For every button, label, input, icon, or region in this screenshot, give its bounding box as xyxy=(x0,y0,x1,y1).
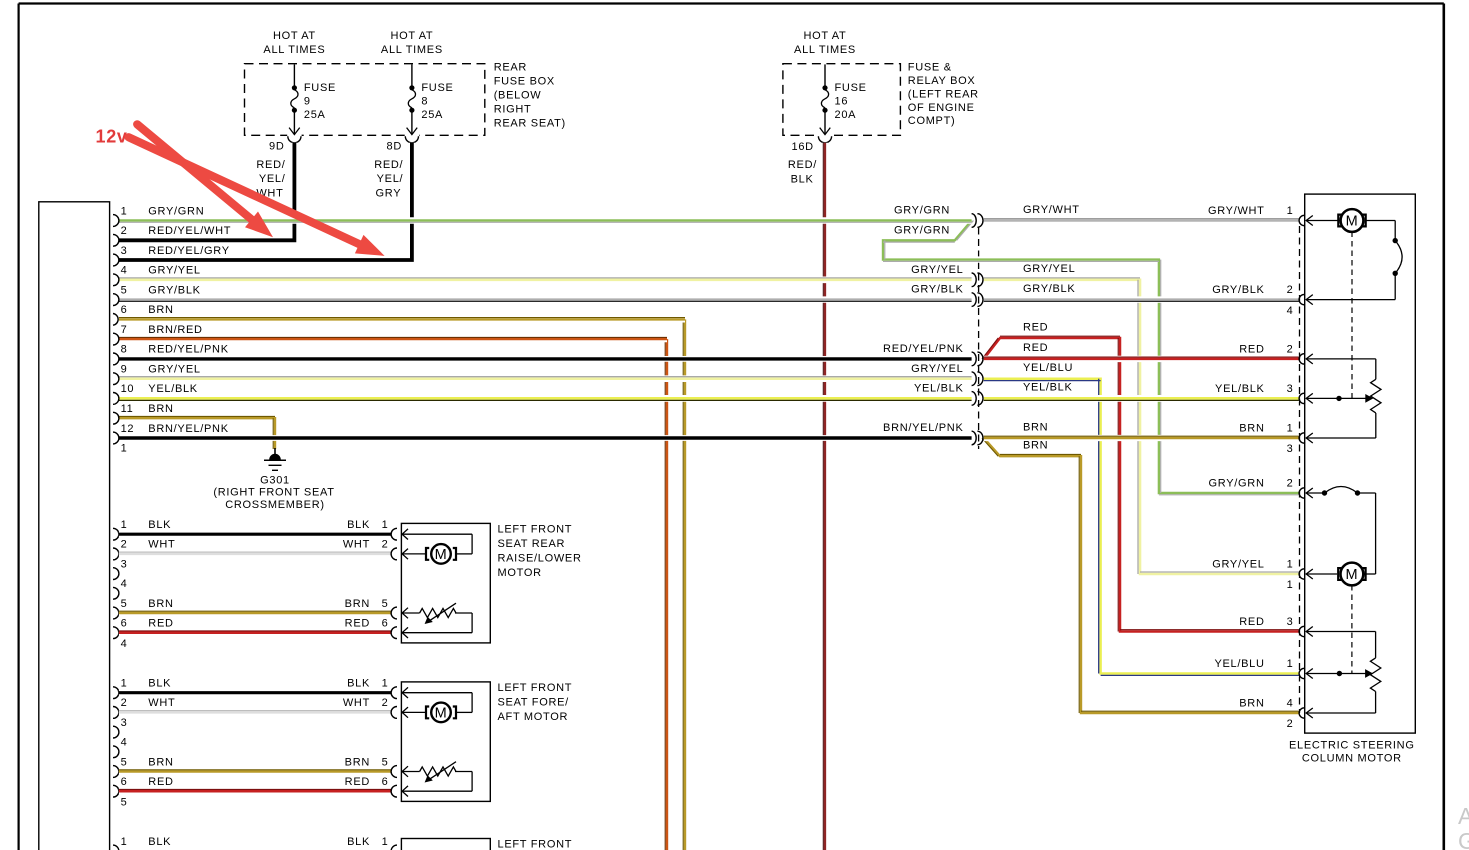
label YEL/BLK left xyxy=(914,383,964,395)
svg-text:3: 3 xyxy=(121,558,128,570)
annotation 12v xyxy=(96,127,128,147)
inline connector terminal pair row y=438 xyxy=(972,431,983,445)
fuse 8 (25A) symbol xyxy=(405,64,419,142)
svg-text:2: 2 xyxy=(1287,284,1294,296)
block pin 3 terminal (module side) xyxy=(113,568,119,580)
svg-text:LEFT FRONT: LEFT FRONT xyxy=(498,682,573,694)
motor box 3 enclosure (partial) xyxy=(401,839,490,850)
motor box pin 2 terminal xyxy=(391,548,397,560)
svg-text:MOTOR: MOTOR xyxy=(498,567,542,579)
block pin 5 terminal (module side) xyxy=(113,607,119,619)
steering pin label YEL/BLU xyxy=(1214,658,1264,670)
steering motor 2 limit switch loop xyxy=(1306,487,1375,575)
steering pin 2 arrow xyxy=(1306,354,1313,364)
svg-text:8D: 8D xyxy=(387,141,402,153)
svg-text:HOT AT: HOT AT xyxy=(390,30,433,42)
wire RED branch to steering pin 3 xyxy=(982,336,1299,631)
connector 9D label xyxy=(269,141,284,153)
svg-text:BLK: BLK xyxy=(347,519,370,531)
svg-text:RED: RED xyxy=(1239,616,1264,628)
label GRY/YEL right xyxy=(1023,263,1075,275)
module pin 9 number xyxy=(121,364,128,376)
svg-text:25A: 25A xyxy=(421,109,443,121)
wire RED/BLK vertical from fuse 16 xyxy=(823,143,825,850)
wire BRN vertical (from pin 6) xyxy=(683,319,685,850)
steering pin label BRN xyxy=(1239,698,1264,710)
svg-text:YEL/BLK: YEL/BLK xyxy=(148,383,198,395)
svg-text:3: 3 xyxy=(121,245,128,257)
svg-text:YEL/BLU: YEL/BLU xyxy=(1214,658,1264,670)
svg-text:9: 9 xyxy=(121,364,128,376)
block pin 3 number (module side) xyxy=(121,558,128,570)
steering pin below-number 2 xyxy=(1287,718,1294,730)
block pin 6 number (module side) xyxy=(121,618,128,630)
motor box pin 1 terminal xyxy=(391,687,397,699)
steering pin number 2 xyxy=(1287,478,1294,490)
block pin 5 number (module side) xyxy=(121,756,128,768)
svg-text:1: 1 xyxy=(1287,559,1294,571)
svg-text:2: 2 xyxy=(1287,478,1294,490)
svg-text:9: 9 xyxy=(304,95,311,107)
svg-text:1: 1 xyxy=(382,519,389,531)
block pin 2 number (module side) xyxy=(121,697,128,709)
module pin 2 wire name xyxy=(148,225,231,237)
svg-text:ALL TIMES: ALL TIMES xyxy=(794,44,856,56)
wire GRY/BLK to steering pin 2 xyxy=(984,300,1299,302)
svg-text:1: 1 xyxy=(121,443,128,455)
module pin 8 wire name xyxy=(148,344,228,356)
svg-text:1: 1 xyxy=(1287,423,1294,435)
svg-text:3: 3 xyxy=(1287,443,1294,455)
module pin 7 wire name xyxy=(148,324,202,336)
svg-text:GRY/YEL: GRY/YEL xyxy=(1023,263,1075,275)
steering pin 1 arrow xyxy=(1306,669,1313,679)
svg-text:4: 4 xyxy=(121,638,128,650)
steering pin 1 (BRN) terminal xyxy=(1299,433,1304,443)
svg-text:ALL TIMES: ALL TIMES xyxy=(263,44,325,56)
block pin 6 terminal (module side) xyxy=(113,785,119,797)
svg-text:25A: 25A xyxy=(304,109,326,121)
steering motor 1 limit switch loop xyxy=(1306,221,1402,300)
label GRY/GRN (loop) xyxy=(894,225,950,237)
svg-text:5: 5 xyxy=(121,756,128,768)
svg-text:RED/: RED/ xyxy=(788,159,817,171)
svg-text:4: 4 xyxy=(121,737,128,749)
block pin 6 wire name xyxy=(148,618,173,630)
svg-text:GRY/YEL: GRY/YEL xyxy=(148,265,200,277)
label BRN lower right xyxy=(1023,440,1048,452)
wire RED row 6 xyxy=(119,631,391,633)
svg-text:M: M xyxy=(435,547,448,563)
svg-text:GRY/YEL: GRY/YEL xyxy=(1212,559,1264,571)
wire RED/YEL/GRY pin 3 to fuse 8 xyxy=(119,143,412,260)
svg-text:(RIGHT FRONT SEAT: (RIGHT FRONT SEAT xyxy=(213,487,334,499)
svg-text:YEL/: YEL/ xyxy=(377,173,404,185)
module pin 12 terminal xyxy=(113,432,119,444)
svg-text:RED: RED xyxy=(148,618,173,630)
wire GRY/GRN loop to steering pin 2 xyxy=(883,221,1299,495)
svg-text:FUSE BOX: FUSE BOX xyxy=(494,76,555,88)
steering pin 2 (GRY/BLK) terminal xyxy=(1299,294,1304,304)
fuse & relay box name xyxy=(908,62,979,128)
svg-text:YEL/BLU: YEL/BLU xyxy=(1023,362,1073,374)
label left front seat rear raise/lower motor xyxy=(498,524,582,580)
right wire name WHT xyxy=(343,697,370,709)
svg-text:RED: RED xyxy=(1023,342,1048,354)
block pin 2 terminal (module side) xyxy=(113,548,119,560)
motor box pin 2 terminal xyxy=(391,707,397,719)
svg-text:2: 2 xyxy=(121,539,128,551)
svg-text:GRY: GRY xyxy=(376,188,402,200)
wire BRN row 5 xyxy=(119,611,391,613)
rear fuse box (dashed enclosure) xyxy=(245,64,485,136)
svg-text:1: 1 xyxy=(121,836,128,848)
svg-text:BRN/YEL/PNK: BRN/YEL/PNK xyxy=(148,423,228,435)
label GRY/BLK left xyxy=(911,284,963,296)
svg-text:G: G xyxy=(1458,828,1469,850)
steering pin label GRY/GRN xyxy=(1209,478,1265,490)
svg-text:A: A xyxy=(1458,803,1469,829)
svg-text:2: 2 xyxy=(1287,343,1294,355)
svg-text:RED: RED xyxy=(1239,343,1264,355)
steering pin 2 (RED) terminal xyxy=(1299,354,1304,364)
svg-text:20A: 20A xyxy=(835,109,857,121)
block pin 1 terminal (module side) xyxy=(113,528,119,540)
label GRY/YEL left 2 xyxy=(911,363,963,375)
svg-text:BRN: BRN xyxy=(1023,421,1048,433)
right pin number 5 xyxy=(382,598,389,610)
svg-text:BRN: BRN xyxy=(345,598,370,610)
module pin 11 number xyxy=(121,403,134,415)
svg-text:GRY/GRN: GRY/GRN xyxy=(1209,478,1265,490)
wire BRN pin 11 to ground xyxy=(119,416,275,449)
inline connector terminal pair row y=280 xyxy=(972,273,983,287)
module pin 12 wire name xyxy=(148,423,228,435)
annotation arrow to fuse9 wire xyxy=(137,124,273,237)
svg-text:GRY/BLK: GRY/BLK xyxy=(148,284,200,296)
wire RED to steering pin 2 xyxy=(984,357,1299,359)
fuse 9 labels xyxy=(304,82,336,121)
module pin 7 number xyxy=(121,324,128,336)
svg-text:1: 1 xyxy=(121,205,128,217)
svg-text:RELAY BOX: RELAY BOX xyxy=(908,75,976,87)
wire name RED/YEL/GRY (fuse 8 drop) xyxy=(374,159,403,200)
module pin 7 terminal xyxy=(113,333,119,345)
module pin 9 wire name xyxy=(148,364,200,376)
steering pin number 4 xyxy=(1287,698,1294,710)
block pin 2 wire name xyxy=(148,697,175,709)
svg-text:1: 1 xyxy=(1287,205,1294,217)
right pin number 6 xyxy=(382,618,389,630)
module pin 4 terminal xyxy=(113,274,119,286)
block pin 5 wire name xyxy=(148,598,173,610)
steering pin number 1 xyxy=(1287,423,1294,435)
svg-text:8: 8 xyxy=(421,95,428,107)
wire BRN/RED pin 7 xyxy=(119,337,667,339)
motor box pin 6 terminal xyxy=(391,785,397,797)
module pin 1 terminal xyxy=(113,215,119,227)
right pin number 6 xyxy=(382,776,389,788)
svg-text:5: 5 xyxy=(382,756,389,768)
motor box enclosure xyxy=(401,523,490,643)
wire BRN pin 6 xyxy=(119,318,685,320)
block pin 5 wire name xyxy=(148,756,173,768)
module pin 4 number xyxy=(121,265,128,277)
svg-text:COLUMN MOTOR: COLUMN MOTOR xyxy=(1302,753,1402,765)
module pin 8 number xyxy=(121,344,128,356)
svg-text:WHT: WHT xyxy=(148,697,175,709)
block pin 4 terminal (module side) xyxy=(113,746,119,758)
label RED right xyxy=(1023,342,1048,354)
svg-text:RED: RED xyxy=(148,776,173,788)
svg-text:BRN: BRN xyxy=(148,598,173,610)
steering column motor box xyxy=(1305,194,1416,733)
module pin 1 (second connector) number xyxy=(121,443,128,455)
svg-text:AFT MOTOR: AFT MOTOR xyxy=(498,711,569,723)
svg-text:CROSSMEMBER): CROSSMEMBER) xyxy=(225,499,324,511)
block pin 1 wire name xyxy=(148,678,171,690)
steering pin label GRY/BLK xyxy=(1212,284,1264,296)
label GRY/YEL left xyxy=(911,264,963,276)
motor box pin 6 terminal xyxy=(391,627,397,639)
svg-text:FUSE: FUSE xyxy=(421,82,453,94)
right wire name BRN xyxy=(345,598,370,610)
svg-text:RED/YEL/PNK: RED/YEL/PNK xyxy=(883,343,963,355)
svg-text:9D: 9D xyxy=(269,141,284,153)
svg-text:BRN: BRN xyxy=(148,304,173,316)
label left front (third motor) xyxy=(498,839,573,850)
svg-text:M: M xyxy=(1346,214,1359,230)
svg-text:LEFT FRONT: LEFT FRONT xyxy=(498,839,573,850)
svg-text:RIGHT: RIGHT xyxy=(494,103,532,115)
module pin 3 terminal xyxy=(113,254,119,266)
module pin 11 terminal xyxy=(113,412,119,424)
inline connector terminal pair row y=379 xyxy=(972,372,983,386)
label BRN right xyxy=(1023,421,1048,433)
svg-text:RED/YEL/WHT: RED/YEL/WHT xyxy=(148,225,231,237)
svg-text:BRN: BRN xyxy=(345,756,370,768)
svg-text:WHT: WHT xyxy=(343,539,370,551)
svg-text:HOT AT: HOT AT xyxy=(804,30,847,42)
svg-text:16D: 16D xyxy=(792,141,814,153)
right pin number 2 xyxy=(382,539,389,551)
steering motor 2 (telescope) symbol xyxy=(1306,563,1365,586)
steering pin label GRY/WHT xyxy=(1208,205,1265,217)
block pin 6 terminal (module side) xyxy=(113,627,119,639)
svg-text:FUSE &: FUSE & xyxy=(908,62,952,74)
steering position sensor 2 resistor xyxy=(1306,632,1381,714)
steering position sensor 1 wiper xyxy=(1306,394,1373,403)
block pin 4 number (module side) xyxy=(121,578,128,590)
right wire name BLK xyxy=(347,678,370,690)
svg-text:WHT: WHT xyxy=(343,697,370,709)
block3 right pin number xyxy=(382,836,389,848)
label left front seat fore/aft motor xyxy=(498,682,573,723)
motor M symbol xyxy=(426,544,456,564)
motor box pin 1 terminal xyxy=(391,528,397,540)
svg-text:SEAT REAR: SEAT REAR xyxy=(498,538,566,550)
svg-text:COMPT): COMPT) xyxy=(908,115,956,127)
svg-text:ELECTRIC STEERING: ELECTRIC STEERING xyxy=(1289,740,1415,752)
block pin 2 number (module side) xyxy=(121,539,128,551)
watermark letters A G xyxy=(1458,803,1469,850)
svg-text:6: 6 xyxy=(121,304,128,316)
module pin 5 number xyxy=(121,284,128,296)
svg-text:6: 6 xyxy=(382,618,389,630)
steering pin below-number 1 xyxy=(1287,579,1294,591)
svg-text:11: 11 xyxy=(121,403,134,415)
block pin 2 terminal (module side) xyxy=(113,707,119,719)
module pin 6 number xyxy=(121,304,128,316)
fuse 16 (20A) symbol xyxy=(818,64,832,142)
wire BRN to steering pin 1 xyxy=(984,436,1299,438)
svg-text:GRY/YEL: GRY/YEL xyxy=(911,264,963,276)
wire RED/YEL/PNK pin 8 xyxy=(119,356,972,362)
svg-text:YEL/BLK: YEL/BLK xyxy=(1023,382,1073,394)
svg-text:GRY/BLK: GRY/BLK xyxy=(1212,284,1264,296)
svg-text:2: 2 xyxy=(1287,718,1294,730)
svg-text:M: M xyxy=(435,706,448,722)
steering pin 1 (YEL/BLU) terminal xyxy=(1299,668,1304,678)
svg-text:REAR SEAT): REAR SEAT) xyxy=(494,117,566,129)
steering pin 1 arrow xyxy=(1306,569,1313,579)
module pin 10 number xyxy=(121,383,135,395)
fuse 8 labels xyxy=(421,82,453,121)
svg-text:2: 2 xyxy=(382,539,389,551)
wire RED/YEL/WHT pin 2 to fuse 9 xyxy=(119,143,295,241)
svg-text:BRN/RED: BRN/RED xyxy=(148,324,202,336)
svg-text:3: 3 xyxy=(1287,616,1294,628)
svg-text:12v: 12v xyxy=(96,127,128,147)
svg-text:REAR: REAR xyxy=(494,62,527,74)
module pin 8 terminal xyxy=(113,353,119,365)
module pin 10 terminal xyxy=(113,393,119,405)
right pin number 2 xyxy=(382,697,389,709)
svg-text:GRY/WHT: GRY/WHT xyxy=(1208,205,1265,217)
svg-text:RED/: RED/ xyxy=(256,159,285,171)
steering pin 1 arrow xyxy=(1306,216,1313,226)
svg-text:4: 4 xyxy=(121,578,128,590)
label RED upper right xyxy=(1023,321,1048,333)
block pin 1 wire name xyxy=(148,519,171,531)
block pin 4 terminal (module side) xyxy=(113,587,119,599)
block pin 4 number (module side) xyxy=(121,737,128,749)
module pin 5 terminal xyxy=(113,294,119,306)
svg-text:BLK: BLK xyxy=(347,678,370,690)
right pin number 1 xyxy=(382,519,389,531)
HOT AT ALL TIMES label (fuse 8) xyxy=(381,30,443,56)
right wire name RED xyxy=(345,776,370,788)
wire BRN/RED vertical (from pin 7) xyxy=(665,339,667,850)
module pin 6 terminal xyxy=(113,314,118,326)
svg-text:1: 1 xyxy=(382,836,389,848)
svg-text:GRY/GRN: GRY/GRN xyxy=(894,225,950,237)
ground G301 labels xyxy=(213,475,334,512)
steering pin below-number 3 xyxy=(1287,443,1294,455)
inline connector terminal pair row y=220 xyxy=(972,214,983,228)
svg-text:10: 10 xyxy=(121,383,135,395)
wire WHT row 2 xyxy=(119,711,391,713)
svg-text:BRN/YEL/PNK: BRN/YEL/PNK xyxy=(883,422,963,434)
steering pin 3 arrow xyxy=(1306,393,1313,403)
wire YEL/BLK to steering pin 3 xyxy=(984,398,1299,400)
label YEL/BLK right xyxy=(1023,382,1073,394)
svg-text:1: 1 xyxy=(382,678,389,690)
block3 right wire name xyxy=(347,836,370,848)
svg-text:4: 4 xyxy=(1287,305,1294,317)
wire BLK row 1 xyxy=(119,531,391,537)
steering pin number 3 xyxy=(1287,383,1294,395)
motor box pin 5 terminal xyxy=(391,766,397,778)
fuse & relay box (dashed enclosure) xyxy=(783,64,901,136)
steering pin label BRN xyxy=(1239,423,1264,435)
motor wiring row1-2 xyxy=(402,529,472,559)
svg-text:3: 3 xyxy=(1287,383,1294,395)
block pin 5 terminal (module side) xyxy=(113,766,119,778)
right wire name RED xyxy=(345,618,370,630)
svg-text:1: 1 xyxy=(1287,658,1294,670)
label electric steering column motor xyxy=(1289,740,1415,765)
motor box enclosure xyxy=(401,682,490,802)
svg-text:YEL/: YEL/ xyxy=(259,173,286,185)
svg-text:4: 4 xyxy=(121,265,128,277)
svg-text:5: 5 xyxy=(121,284,128,296)
module pin 3 wire name xyxy=(148,245,229,257)
svg-text:FUSE: FUSE xyxy=(304,82,336,94)
svg-text:2: 2 xyxy=(121,697,128,709)
steering pin label YEL/BLK xyxy=(1215,383,1265,395)
svg-text:8: 8 xyxy=(121,344,128,356)
block pin 6 number (module side) xyxy=(121,776,128,788)
steering position sensor 2 wiper xyxy=(1306,669,1373,678)
steering connector dashed boundary xyxy=(1299,226,1301,713)
steering pin number 1 xyxy=(1287,658,1294,670)
label RED/YEL/PNK left xyxy=(883,343,963,355)
right wire name WHT xyxy=(343,539,370,551)
steering pin number 2 xyxy=(1287,343,1294,355)
variable resistor (seat position sensor) xyxy=(402,603,472,638)
module pin 11 wire name xyxy=(148,403,173,415)
fuse 16 labels xyxy=(835,82,867,121)
steering motor 1 (tilt) symbol xyxy=(1306,209,1366,232)
svg-text:2: 2 xyxy=(382,697,389,709)
svg-text:BRN: BRN xyxy=(148,403,173,415)
label GRY/BLK right xyxy=(1023,283,1075,295)
inline connector dashed boundary xyxy=(978,228,980,450)
motor M symbol xyxy=(426,703,456,723)
steering pin 2 arrow xyxy=(1306,295,1313,305)
steering pin number 3 xyxy=(1287,616,1294,628)
steering pin 4 (BRN) terminal xyxy=(1299,708,1304,718)
svg-text:RED/: RED/ xyxy=(374,159,403,171)
svg-text:16: 16 xyxy=(835,95,849,107)
steering position sensor 1 resistor xyxy=(1306,359,1381,438)
svg-text:12: 12 xyxy=(121,423,135,435)
module pin 9 terminal xyxy=(113,373,119,385)
block pin 2 wire name xyxy=(148,539,175,551)
svg-text:GRY/YEL: GRY/YEL xyxy=(911,363,963,375)
connector 16D label xyxy=(792,141,814,153)
svg-text:BLK: BLK xyxy=(791,173,814,185)
module pin 5 wire name xyxy=(148,284,200,296)
annotation arrow to fuse8 wire xyxy=(129,137,385,256)
steering pin 1 (GRY/WHT) terminal xyxy=(1299,215,1304,225)
inline connector terminal pair row y=300 xyxy=(972,293,983,307)
wire BRN/YEL/PNK pin 12 xyxy=(119,435,972,441)
svg-text:GRY/GRN: GRY/GRN xyxy=(148,205,204,217)
steering pin 3 (RED) terminal xyxy=(1299,626,1304,636)
block3 wire name BLK xyxy=(148,836,171,848)
